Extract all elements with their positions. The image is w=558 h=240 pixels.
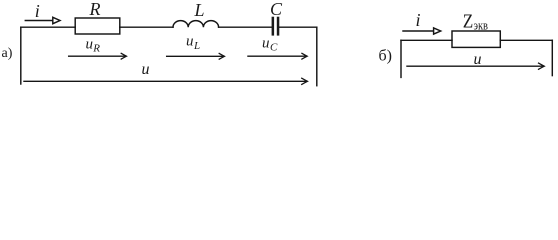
wire Z box to right corner (500, 39, 552, 41)
svg-text:б): б) (379, 48, 392, 65)
svg-text:u: u (474, 51, 482, 68)
impedance Zэкв box (452, 31, 500, 47)
label uR (86, 37, 101, 55)
inductor L (173, 21, 219, 28)
svg-text:u: u (262, 36, 270, 52)
wire R to L (120, 26, 173, 28)
voltage arrow uC (248, 53, 307, 59)
svg-text:i: i (416, 10, 421, 30)
label Zэкв (463, 11, 488, 33)
label uL (186, 34, 200, 53)
svg-text:C: C (270, 0, 283, 19)
svg-text:R: R (89, 0, 101, 19)
voltage arrow u (figure b) (407, 63, 544, 69)
svg-text:экв: экв (474, 17, 489, 32)
wire L to C (219, 26, 272, 28)
resistor R (75, 18, 120, 34)
wire left vertical (figure b) (400, 40, 402, 77)
wire top left segment (figure b) (401, 39, 452, 41)
current arrow i (figure b) (403, 28, 441, 34)
svg-text:а): а) (2, 46, 13, 61)
svg-text:C: C (270, 42, 278, 54)
capacitor C (272, 17, 280, 36)
svg-text:i: i (35, 1, 40, 21)
svg-text:L: L (194, 0, 205, 20)
voltage arrow uL (167, 53, 225, 59)
label uC (262, 36, 278, 54)
wire left vertical (figure a) (20, 27, 22, 84)
svg-text:u: u (86, 37, 94, 53)
wire right vertical (figure b) (551, 40, 553, 75)
svg-text:u: u (142, 61, 150, 78)
wire top left segment (21, 26, 75, 28)
voltage arrow u (figure a total) (24, 78, 308, 84)
wire C to right corner (279, 26, 317, 28)
svg-text:R: R (92, 43, 100, 55)
svg-text:u: u (186, 34, 194, 50)
current arrow i (figure a) (25, 17, 60, 23)
svg-text:Z: Z (463, 11, 474, 33)
svg-text:L: L (193, 40, 200, 52)
wire right vertical (figure a) (316, 27, 318, 85)
voltage arrow uR (69, 53, 127, 59)
